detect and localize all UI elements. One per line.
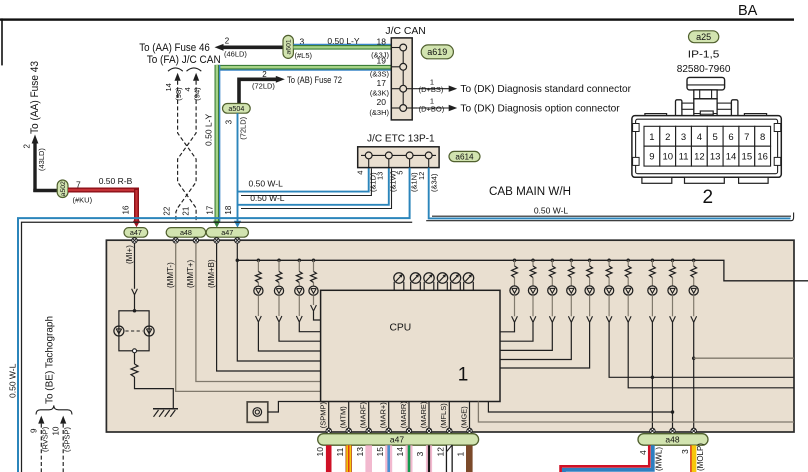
wire below lamp box (134, 353, 136, 364)
dashed link between lamps (125, 330, 142, 332)
pin number 4 (twisted) (183, 87, 192, 91)
top pins of ECU (132, 238, 240, 243)
wire oscillator to CPU (268, 402, 321, 413)
svg-text:a47: a47 (221, 228, 233, 237)
label 0.50 L-Y (327, 36, 359, 46)
resistor MI+ (131, 364, 138, 377)
wire CPU bottom drop B gray (478, 402, 794, 423)
indicator chain R2 (500, 259, 538, 342)
harness wire numbers a47 (315, 447, 466, 457)
svg-text:0.50 L-Y: 0.50 L-Y (327, 36, 359, 46)
svg-text:20: 20 (377, 97, 387, 107)
resistor motor winding (361, 382, 367, 392)
svg-text:a614: a614 (455, 152, 474, 161)
svg-text:J/C ETC 13P-1: J/C ETC 13P-1 (367, 133, 435, 144)
wire code (#KU) (73, 196, 93, 205)
wire MM+B (217, 243, 321, 371)
svg-text:(MWL): (MWL) (655, 447, 664, 471)
svg-text:(72LD): (72LD) (239, 116, 248, 139)
svg-text:To (AA) Fuse 46: To (AA) Fuse 46 (139, 42, 210, 54)
label CPU (390, 323, 412, 334)
label 82580-7960 (677, 63, 731, 75)
svg-text:(MOLP): (MOLP) (696, 443, 705, 471)
pin number 3 (a504) (225, 119, 234, 124)
node bus start (236, 259, 240, 263)
svg-text:19: 19 (377, 56, 387, 66)
bottom pins a48 (650, 428, 697, 433)
svg-text:0.50 W-L: 0.50 W-L (249, 178, 284, 188)
connector a48 bottom bar (638, 434, 708, 446)
svg-text:10: 10 (315, 447, 325, 457)
indicator chain R9 (668, 259, 677, 430)
svg-text:17: 17 (377, 78, 387, 88)
pin number 2 (fuse 46) (225, 37, 230, 46)
wire to diagnosis standard (418, 88, 450, 90)
connector 2 housing IP-1,5 82580-7960 (632, 77, 781, 183)
svg-text:10: 10 (662, 152, 673, 163)
svg-text:14: 14 (726, 152, 737, 163)
pin number 5 (ETC) (396, 171, 405, 175)
svg-text:5: 5 (396, 171, 405, 175)
harness wire 11 yellow-red (346, 445, 352, 472)
arrow up SPSP (60, 416, 66, 424)
svg-text:4: 4 (183, 87, 192, 91)
connector number 2 (703, 187, 714, 208)
svg-text:2: 2 (23, 144, 32, 149)
harness boundary right hook (791, 213, 794, 221)
svg-text:(MARE): (MARE) (419, 401, 428, 428)
pin number 12 (ETC) (417, 172, 426, 180)
indicator chain R3 (500, 259, 557, 351)
kink mark wire 12 (446, 445, 452, 452)
wire pin18 feed (237, 243, 320, 361)
svg-text:12: 12 (417, 172, 426, 180)
svg-text:a504: a504 (228, 104, 244, 113)
connector a619 (421, 45, 453, 59)
harness boundary branch2 (241, 169, 392, 209)
wire code (94) (193, 87, 202, 101)
node lamp box top (133, 309, 137, 313)
svg-text:BA: BA (738, 3, 758, 19)
bottom wire labels a47 (319, 401, 469, 429)
wire fuse46 black (223, 45, 284, 49)
svg-text:(72LD): (72LD) (252, 82, 275, 91)
svg-text:21: 21 (182, 206, 191, 215)
pin number 20 (CAN) (377, 97, 387, 107)
lamp right (144, 326, 154, 336)
wire code (&3J) (371, 51, 389, 60)
svg-text:15: 15 (375, 447, 385, 457)
svg-text:10: 10 (52, 426, 61, 435)
label 0.50 W-L rotated left (8, 363, 18, 398)
top border rule (0, 18, 794, 20)
wire CPU bottom drop A (488, 402, 672, 413)
junction block J/C CAN (391, 38, 417, 120)
indicator chain R8 (648, 259, 657, 430)
wire to ground (135, 377, 174, 409)
connector a601 (283, 35, 293, 58)
wire 0.50 L-Y vertical (217, 65, 220, 222)
indicator chain L1 (254, 259, 321, 351)
svg-text:4: 4 (356, 171, 365, 175)
wire W-L left bus blue (18, 168, 410, 472)
svg-text:22: 22 (163, 206, 172, 215)
wire label (MMT+) (186, 259, 195, 288)
page header BA (738, 3, 758, 19)
pin number 17 (CAN) (377, 78, 387, 88)
label 0.50 R-B (99, 176, 133, 186)
arrow green into a47 pin17 (213, 221, 220, 228)
svg-text:To (BE) Tachograph: To (BE) Tachograph (45, 316, 56, 404)
wire supply bus (237, 260, 808, 281)
pin number 2 (fuse 72) (262, 70, 267, 79)
label J/C ETC 13P-1 (367, 133, 435, 144)
svg-text:3: 3 (681, 132, 686, 143)
label To (DK) Diagnosis option connector (460, 103, 620, 115)
pin number 4 (ETC) (356, 171, 365, 175)
svg-text:9: 9 (649, 152, 654, 163)
ground symbol (153, 409, 178, 417)
ECU box 1 (106, 240, 794, 432)
wire code (&3H) (369, 108, 389, 117)
wire SPSP dashed (62, 424, 64, 472)
svg-text:IP-1,5: IP-1,5 (688, 49, 720, 61)
pin number 18 (224, 205, 233, 214)
svg-text:(SPMP): (SPMP) (319, 402, 328, 429)
svg-text:(&3H): (&3H) (369, 108, 389, 117)
arrow up RVSP (38, 416, 44, 424)
wire 0.50 R-B horizontal (68, 188, 139, 193)
wire label (MMT-) (166, 262, 175, 288)
wire code (D+BO) (419, 105, 445, 114)
svg-text:3: 3 (225, 119, 234, 124)
label 0.50 W-L (right) (534, 206, 569, 216)
wire code (D+BS) (419, 85, 444, 94)
node chain R10 junction (692, 356, 696, 360)
lamp left (114, 326, 124, 336)
harness wire 13 pink (365, 445, 372, 472)
connector a614 (449, 151, 480, 161)
wire code (#L5) (295, 51, 313, 60)
label To (AA) Fuse 46 (139, 42, 210, 54)
wire gray from R10 (694, 357, 794, 359)
svg-text:1: 1 (458, 364, 469, 385)
svg-text:a619: a619 (427, 47, 447, 57)
left page frame tick (1, 18, 3, 65)
wire W-L from a504 vertical (237, 113, 239, 222)
label 0.50 L-Y rotated (204, 114, 214, 146)
twisted pair wire R (178, 81, 197, 223)
node lamp box bottom (133, 349, 137, 353)
wire 0.50 W-L long right (429, 168, 791, 219)
svg-text:(#KU): (#KU) (73, 196, 93, 205)
wire code (&1W) (389, 170, 398, 192)
harness wire MOLP yellow (691, 445, 694, 472)
harness wire MWL red (561, 445, 650, 472)
svg-text:a48: a48 (665, 434, 679, 444)
arrow up twisted L (175, 73, 181, 81)
arrowhead MI+ wire (132, 289, 138, 295)
label To (BE) Tachograph (45, 316, 56, 404)
meter M6 on CPU (463, 273, 473, 291)
svg-text:11: 11 (679, 152, 689, 163)
svg-text:4: 4 (697, 132, 702, 143)
wire fuse43 vertical (33, 142, 36, 192)
twisted pair wire L (176, 81, 196, 223)
svg-text:4: 4 (638, 450, 648, 455)
svg-text:(D+BO): (D+BO) (419, 105, 445, 114)
pin number 21 (182, 206, 191, 215)
pin number 1 (D+BO) (430, 97, 434, 106)
bottom pins a47 (326, 428, 472, 433)
svg-text:(MI+): (MI+) (125, 245, 134, 264)
harness wire 1 brown (466, 445, 473, 472)
svg-text:(&34): (&34) (429, 173, 438, 192)
indicator chain L4 (309, 259, 321, 320)
wire label (RVSP) (41, 426, 50, 452)
pin number 9 (30, 428, 39, 433)
svg-text:(#L5): (#L5) (295, 51, 313, 60)
svg-text:82580-7960: 82580-7960 (677, 63, 731, 75)
CPU bottom pin stubs (329, 402, 470, 430)
wire 0.50 L-Y to pin18 (293, 44, 391, 47)
wire label (SPSP) (63, 426, 72, 452)
svg-text:14: 14 (395, 447, 405, 457)
wire label (MWL) (655, 447, 664, 471)
node chain R8 junction (651, 376, 655, 380)
harness wire MWL blue (564, 445, 653, 472)
svg-text:13: 13 (376, 172, 385, 180)
svg-text:a47: a47 (390, 434, 404, 444)
lamp module box (119, 311, 149, 351)
svg-text:J/C CAN: J/C CAN (385, 26, 425, 37)
svg-text:8: 8 (760, 132, 765, 143)
harness boundary right bottom (426, 220, 791, 222)
connector a47 top-2 (206, 228, 248, 238)
wire code (43LD) (37, 148, 46, 171)
ECU number 1 (458, 364, 469, 385)
connector a25 (689, 31, 719, 43)
svg-text:a48: a48 (180, 228, 192, 237)
pin number 16 (122, 205, 131, 214)
arrow diagnosis option (449, 105, 458, 111)
connector a47 top-1 (124, 228, 148, 238)
label IP-1,5 (688, 49, 720, 61)
svg-text:(MAR+): (MAR+) (379, 402, 388, 429)
harness wire 12 white-black (446, 445, 453, 472)
wire fuse43 horizontal (33, 189, 57, 192)
arrow blue into a47 pin18 (234, 221, 241, 228)
wire code (&1N) (409, 172, 418, 192)
oscillator module (247, 402, 268, 422)
junction block J/C ETC 13P-1 (358, 147, 439, 168)
pin number 7 (76, 180, 81, 190)
svg-text:13: 13 (710, 152, 721, 163)
svg-text:a601: a601 (286, 39, 293, 54)
pin number 3 (MOLP) (680, 449, 690, 454)
pin number 14 (164, 83, 173, 91)
CPU block (321, 290, 500, 401)
pin number 18 (CAN) (377, 36, 387, 46)
svg-text:0.50 W-L: 0.50 W-L (250, 193, 285, 203)
harness wire 10 red (326, 445, 332, 472)
connector a504 (223, 104, 251, 114)
wire code (46LD) (224, 50, 247, 59)
svg-text:a47: a47 (130, 228, 142, 237)
label To (AA) Fuse 43 (29, 61, 41, 134)
wire label (MOLP) (696, 443, 705, 471)
pin number 19 (CAN) (377, 56, 387, 66)
harness boundary right top (432, 215, 791, 217)
meter M5 on CPU (450, 273, 460, 291)
svg-text:2: 2 (665, 132, 670, 143)
wire label (MM+B) (207, 259, 216, 288)
pin number 1 (D+BS) (430, 77, 434, 86)
indicator chain R6 (605, 259, 795, 378)
svg-text:To (DK) Diagnosis standard con: To (DK) Diagnosis standard connector (460, 83, 631, 95)
svg-text:To (AB) Fuse 72: To (AB) Fuse 72 (287, 75, 342, 85)
label J/C CAN (385, 26, 425, 37)
svg-text:0.50 W-L: 0.50 W-L (534, 206, 569, 216)
wire 0.50 W-L branch2 (238, 168, 389, 205)
arrow up twisted R (193, 73, 199, 81)
indicator chain R4 (500, 259, 576, 360)
wire MI+ to lamp box (134, 295, 136, 311)
svg-text:(MTM): (MTM) (339, 406, 348, 429)
indicator chain L3 (295, 259, 321, 332)
svg-text:(MFLS): (MFLS) (439, 403, 448, 429)
svg-text:0.50 W-L: 0.50 W-L (8, 363, 18, 398)
svg-text:(46LD): (46LD) (224, 50, 247, 59)
indicator chain R10 (689, 259, 698, 430)
brace tachograph (36, 405, 72, 414)
label To (DK) Diagnosis standard connector (460, 83, 631, 95)
svg-text:18: 18 (377, 36, 387, 46)
wire MI+ upper (134, 243, 136, 289)
pin number 3 (a601) (300, 36, 305, 46)
arrow diagnosis standard (449, 86, 458, 92)
node drop A to R9 (671, 410, 675, 414)
svg-text:To (DK) Diagnosis option conne: To (DK) Diagnosis option connector (460, 103, 620, 115)
svg-text:To (FA) J/C CAN: To (FA) J/C CAN (147, 54, 221, 66)
indicator chain R5 (500, 259, 594, 368)
svg-text:9: 9 (30, 428, 39, 433)
svg-text:17: 17 (206, 205, 215, 214)
meter M3 on CPU (424, 273, 434, 291)
svg-text:(MARF): (MARF) (359, 402, 368, 429)
wire MMT- gray (176, 243, 364, 391)
wire code (72LD) (252, 82, 275, 91)
meter M2 on CPU (410, 273, 420, 291)
pin number 10 (SPSP) (52, 426, 61, 435)
svg-text:0.50 L-Y: 0.50 L-Y (204, 114, 214, 146)
svg-text:(D+BS): (D+BS) (419, 85, 444, 94)
wire code (98) (174, 87, 183, 101)
svg-text:(MM+B): (MM+B) (207, 259, 216, 288)
wire to diagnosis option (418, 107, 450, 109)
pin number 2 (fuse 43) (23, 144, 32, 149)
svg-text:7: 7 (744, 132, 749, 143)
wire 0.50 L-Y to pin19 horizontal (217, 67, 391, 70)
harness boundary left (22, 222, 413, 472)
svg-text:(MARR): (MARR) (399, 401, 408, 429)
wire 0.50 W-L branch1 (238, 168, 369, 192)
meter M4 on CPU (437, 273, 447, 291)
meter M1 on CPU (394, 273, 404, 291)
svg-text:(RVSP): (RVSP) (41, 426, 50, 452)
wire code (&34) (429, 173, 438, 192)
svg-text:1: 1 (649, 132, 654, 143)
svg-text:(98): (98) (174, 87, 183, 101)
svg-text:13: 13 (355, 447, 365, 457)
svg-text:18: 18 (224, 205, 233, 214)
wire label (MI+) (125, 245, 134, 264)
label 0.50 W-L (1) (249, 178, 284, 188)
svg-text:CAB MAIN W/H: CAB MAIN W/H (489, 186, 571, 198)
pin number 22 (163, 206, 172, 215)
svg-text:(MGE): (MGE) (459, 406, 468, 429)
arrow to fuse 72 (276, 76, 285, 83)
svg-text:a25: a25 (696, 32, 711, 42)
svg-text:12: 12 (436, 447, 446, 457)
svg-text:16: 16 (757, 152, 768, 163)
svg-text:15: 15 (742, 152, 753, 163)
wire 0.50 R-B vertical (133, 188, 140, 227)
svg-text:12: 12 (694, 152, 705, 163)
wire code (&1D) (369, 172, 378, 192)
pin number 4 (MWL) (638, 450, 648, 455)
svg-text:(43LD): (43LD) (37, 148, 46, 171)
svg-text:a502: a502 (60, 181, 67, 196)
connector a48 top (166, 228, 206, 238)
svg-text:2: 2 (225, 37, 230, 46)
svg-text:5: 5 (713, 132, 718, 143)
svg-text:16: 16 (122, 205, 131, 214)
brace right (FA) (187, 68, 202, 71)
wire code (72LD) rotated (239, 116, 248, 139)
arrow to fuse 43 (32, 135, 39, 144)
arrow to fuse 46 (215, 44, 224, 51)
harness wire 3 pink-black (426, 445, 432, 472)
connector a47 bottom bar (318, 434, 479, 446)
pin number 13 (ETC) (376, 172, 385, 180)
wire code (&3S) (370, 69, 390, 78)
svg-text:(MMT+): (MMT+) (186, 259, 195, 288)
svg-text:(94): (94) (193, 87, 202, 101)
harness boundary branch1 (241, 169, 371, 196)
wire fuse72 horizontal (239, 78, 277, 82)
harness wire 15 pink-blue (385, 445, 392, 472)
wire RVSP dashed (40, 424, 42, 472)
svg-text:To (AA) Fuse 43: To (AA) Fuse 43 (29, 61, 41, 134)
indicator chain R1 (500, 259, 519, 332)
indicator chain L2 (274, 259, 320, 342)
brace left (FA) (168, 68, 183, 71)
label 0.50 W-L (2) (250, 193, 285, 203)
svg-text:14: 14 (164, 83, 173, 91)
wire code (&3K) (370, 89, 390, 98)
svg-text:3: 3 (680, 449, 690, 454)
svg-text:2: 2 (703, 187, 714, 208)
pin number 17 (206, 205, 215, 214)
label To (FA) J/C CAN (147, 54, 221, 66)
svg-text:3: 3 (415, 452, 425, 457)
wire MMT+ gray (196, 243, 364, 381)
svg-text:CPU: CPU (390, 323, 412, 334)
label To (AB) Fuse 72 (287, 75, 342, 85)
svg-text:0.50 R-B: 0.50 R-B (99, 176, 133, 186)
svg-text:1: 1 (456, 452, 466, 457)
